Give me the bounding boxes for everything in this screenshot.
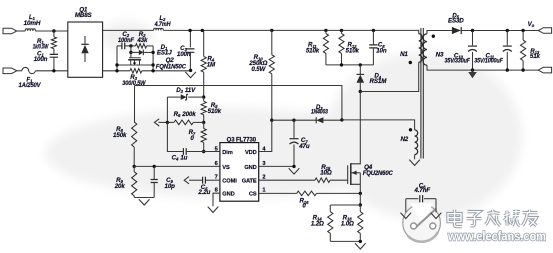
svg-text:GND: GND: [222, 192, 234, 198]
node junction: [324, 29, 327, 32]
svg-text:4.7mH: 4.7mH: [154, 21, 171, 28]
op-amp U1 controller Q3 FL7730 box: [220, 143, 259, 202]
node junction: [166, 121, 169, 124]
resistor R15 10 ohm gate: [259, 179, 315, 181]
svg-text:Vo: Vo: [528, 21, 535, 28]
svg-text:35V/1000uF: 35V/1000uF: [474, 57, 503, 64]
diode D5 ES3D: [452, 27, 461, 34]
node junction: [202, 150, 205, 153]
node junction: [189, 69, 192, 72]
capacitor C6 4.7nF: [406, 198, 419, 200]
svg-text:43k: 43k: [136, 37, 148, 44]
node junction: [292, 119, 295, 122]
wire: [130, 46, 132, 53]
wire snubber right vertical: [152, 46, 154, 71]
wire: [166, 97, 168, 122]
capacitor C10 35V/330uF: [472, 31, 474, 46]
node junction: [151, 63, 154, 66]
resistor R18 1.0 ohm: [359, 205, 361, 212]
node junction: [521, 29, 524, 32]
svg-text:51k: 51k: [530, 53, 541, 60]
svg-text:47u: 47u: [298, 143, 310, 150]
node junction: [151, 69, 154, 72]
svg-text:1M: 1M: [207, 62, 216, 69]
input terminal top (line): [3, 28, 17, 34]
fuse F1 1A/250V: [22, 67, 36, 73]
wire aux to ground: [414, 155, 416, 160]
resistor R8 150k: [134, 86, 136, 123]
wire VS sense from aux: [135, 86, 342, 120]
wire DC+ rail: [103, 29, 154, 31]
ground arrow left: [401, 213, 412, 219]
capacitor C7 47u: [293, 120, 295, 138]
wire: [35, 30, 67, 32]
svg-text:N3: N3: [436, 52, 444, 59]
svg-text:10n: 10n: [376, 48, 387, 55]
svg-text:6: 6: [215, 161, 218, 167]
ground: [139, 199, 150, 205]
wire DC+ rail to transformer: [163, 30, 418, 33]
elecfans logo: [403, 204, 441, 242]
node junction: [340, 118, 343, 121]
wire: [17, 30, 25, 32]
wire VS: [134, 165, 220, 167]
wire aux winding feed: [342, 120, 415, 130]
resistor R11 510k: [325, 30, 327, 33]
wire GND pin8: [213, 193, 220, 206]
capacitor C1 100n: [50, 54, 58, 57]
svg-text:10p: 10p: [165, 183, 176, 190]
node junction: [359, 203, 362, 206]
capacitor C3 100n: [189, 30, 191, 47]
svg-text:2.2u: 2.2u: [197, 189, 210, 196]
diode D4 RS1M: [359, 65, 361, 75]
node junction: [292, 165, 295, 168]
diode D2 11V zener: [167, 96, 180, 98]
transistor Q2 FQN1N50C: [130, 52, 132, 57]
ground: [289, 168, 300, 174]
phase dot N3: [432, 35, 435, 38]
node junction: [521, 68, 524, 71]
capacitor C5 2.2u: [189, 179, 202, 181]
resistor R9 20k: [132, 172, 137, 196]
svg-text:R6 200k: R6 200k: [174, 111, 197, 118]
wire bleeder bottom row: [117, 64, 153, 66]
wire: [435, 199, 437, 213]
phase dot N2: [409, 128, 412, 131]
wire clamp bottom row: [326, 64, 374, 66]
resistor R10 250k 0.5W: [271, 30, 273, 54]
svg-text:Dim: Dim: [222, 150, 232, 156]
svg-text:1.0Ω: 1.0Ω: [341, 221, 354, 228]
svg-text:20k: 20k: [114, 183, 126, 190]
wire arrow to dimmer: [158, 121, 167, 123]
wire sense top row: [330, 204, 360, 206]
ground (primary): [185, 72, 196, 78]
node junction: [372, 29, 375, 32]
svg-text:D2 11V: D2 11V: [176, 87, 196, 94]
capacitor C2 100nF: [117, 45, 122, 47]
capacitor C8 10n: [372, 30, 374, 45]
node junction: [471, 29, 474, 32]
wire: [167, 122, 183, 151]
svg-text:CS: CS: [249, 192, 257, 198]
svg-text:C4 1u: C4 1u: [172, 155, 188, 162]
phase dot N1: [409, 61, 412, 64]
svg-text:GND: GND: [244, 165, 256, 171]
wire: [35, 70, 67, 72]
node junction: [359, 90, 362, 93]
node junction: [506, 29, 509, 32]
node junction: [270, 119, 273, 122]
svg-text:510k: 510k: [346, 48, 360, 55]
capacitor C9 10p: [153, 166, 155, 179]
node junction: [52, 29, 55, 32]
resistor R14 1.2 ohm: [329, 205, 331, 212]
inductor L1 10mH: [25, 29, 35, 31]
ground (aux): [409, 160, 420, 166]
svg-text:150k: 150k: [113, 132, 127, 139]
transistor Q4 FQU2N60C: [351, 92, 361, 164]
svg-text:4.7nF: 4.7nF: [414, 187, 431, 194]
node junction: [506, 68, 509, 71]
node junction: [151, 51, 154, 54]
node junction: [340, 29, 343, 32]
svg-text:1.2Ω: 1.2Ω: [311, 221, 324, 228]
svg-text:ES1J: ES1J: [157, 50, 172, 57]
node junction: [359, 63, 362, 66]
resistor R6 200k: [167, 121, 174, 123]
wire DC- from bridge: [103, 70, 130, 72]
svg-text:100n: 100n: [177, 51, 191, 58]
capacitor C4 1u: [183, 148, 186, 155]
svg-text:1A/250V: 1A/250V: [19, 82, 42, 89]
node junction: [359, 240, 362, 243]
transformer core: [421, 28, 423, 159]
transformer secondary winding N3: [423, 34, 427, 66]
resistor R16 0 CS: [259, 192, 297, 194]
svg-text:100n: 100n: [34, 56, 48, 63]
node junction: [115, 63, 118, 66]
svg-text:GATE: GATE: [242, 179, 257, 185]
wire secondary bottom: [427, 65, 538, 70]
resistor R2 43k: [136, 44, 147, 48]
wire: [359, 193, 361, 205]
wire GND pin3: [259, 165, 294, 167]
node junction: [188, 29, 191, 32]
resistor R12 510k: [341, 30, 343, 33]
bridge rectifier Q1 MB8S: [68, 22, 103, 77]
wire: [405, 199, 407, 213]
node junction: [359, 192, 362, 195]
svg-text:510k: 510k: [208, 108, 222, 115]
wire VDD pin4: [259, 120, 272, 151]
node junction: [201, 29, 204, 32]
svg-text:VDD: VDD: [245, 150, 257, 156]
svg-text:ES3D: ES3D: [448, 18, 464, 25]
svg-text:10mH: 10mH: [24, 20, 41, 27]
capacitor C11 35V/1000uF: [506, 31, 508, 46]
ground (power): [355, 243, 366, 249]
ground: [208, 207, 219, 213]
wire to primary winding bottom: [360, 62, 418, 91]
ground (secondary): [472, 70, 474, 72]
wire: [17, 70, 22, 72]
diode D3 1N4003: [294, 119, 316, 121]
svg-text:1N4003: 1N4003: [311, 109, 328, 116]
node junction: [129, 44, 132, 47]
svg-text:100nF: 100nF: [118, 37, 134, 44]
diode D1 ES1J: [131, 51, 139, 53]
node junction: [471, 68, 474, 71]
svg-text:10Ω: 10Ω: [320, 170, 332, 177]
node junction: [115, 69, 118, 72]
output terminal return: [538, 67, 551, 73]
svg-text:5: 5: [215, 146, 218, 152]
wire secondary top: [427, 31, 452, 34]
transformer aux winding N2: [415, 130, 418, 155]
input terminal bottom (neutral): [3, 68, 17, 74]
svg-text:N1: N1: [400, 51, 408, 58]
resistor R7 0: [201, 129, 206, 143]
node junction: [202, 121, 205, 124]
wire: [272, 119, 294, 121]
node junction: [133, 165, 136, 168]
svg-text:MB8S: MB8S: [75, 12, 93, 19]
wire sense bottom row: [330, 240, 360, 242]
svg-text:FQN1N50C: FQN1N50C: [156, 63, 187, 70]
resistor R4 1M: [203, 30, 205, 56]
resistor R5 510k: [201, 101, 206, 115]
node junction: [52, 69, 55, 72]
svg-text:N2: N2: [400, 136, 408, 143]
resistor R1 1k/0.5W: [53, 31, 55, 37]
svg-text:0.5W: 0.5W: [251, 66, 266, 73]
resistor R3 300/0.5W: [130, 69, 142, 74]
svg-text:35V/330uF: 35V/330uF: [445, 57, 471, 64]
svg-text:510k: 510k: [306, 48, 320, 55]
output terminal Vo: [538, 28, 551, 34]
wire snubber left vertical: [116, 46, 118, 71]
node junction: [202, 95, 205, 98]
wire: [134, 197, 154, 199]
resistor R13 51k: [522, 31, 524, 41]
ground arrow right: [431, 213, 442, 219]
node junction: [340, 63, 343, 66]
node junction: [153, 165, 156, 168]
svg-text:RS1M: RS1M: [370, 78, 388, 85]
watermark text 电子发烧友: [448, 210, 462, 227]
transformer primary winding N1: [419, 34, 423, 63]
svg-text:FQU2N60C: FQU2N60C: [363, 170, 394, 177]
svg-text:Q3 FL7730: Q3 FL7730: [227, 136, 257, 143]
node junction: [270, 29, 273, 32]
wire DC- to ground: [142, 70, 191, 72]
svg-text:1: 1: [262, 188, 265, 194]
svg-text:www.elecfans.com: www.elecfans.com: [447, 228, 546, 243]
inductor L2 4.7mH: [154, 28, 164, 30]
svg-text:COMI: COMI: [222, 179, 237, 185]
node junction: [129, 51, 132, 54]
svg-text:VS: VS: [222, 165, 230, 171]
